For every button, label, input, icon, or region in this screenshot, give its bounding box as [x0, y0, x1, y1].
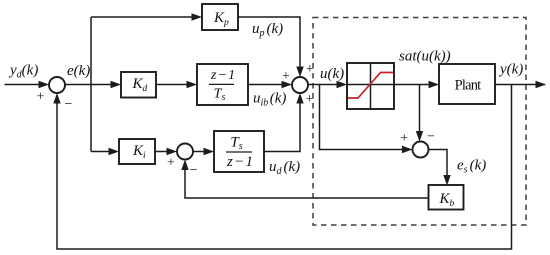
wire e(k) to Kd: [65, 84, 111, 86]
block Plant: [439, 64, 495, 104]
arrow into sum3 bottom: [181, 160, 188, 171]
svg-text:e(k): e(k): [67, 63, 90, 79]
blocks: [49, 4, 495, 210]
summing junction S2: [292, 77, 308, 93]
arrowheads: [39, 13, 547, 185]
summing junction S3: [177, 144, 193, 160]
wire sat to plant: [394, 84, 430, 86]
arrow into zblock: [187, 81, 198, 88]
svg-text:y(k): y(k): [498, 62, 523, 78]
svg-text:uib(k): uib(k): [253, 91, 286, 109]
wire branch vertical: [90, 17, 92, 152]
fraction bar tblock: [226, 151, 252, 153]
wire sum4 to Kh: [429, 150, 448, 176]
arrow into sum2 bottom: [296, 93, 303, 104]
block (z-1)/Ts: [197, 64, 248, 105]
wire sat out tap to sum4: [419, 85, 421, 133]
svg-text:+: +: [306, 62, 314, 77]
arrow into sum3 left: [167, 148, 178, 155]
svg-text:+: +: [306, 92, 314, 107]
arrow into sum1: [39, 81, 50, 88]
arrow into sum2 left: [282, 81, 293, 88]
block Kd: [121, 72, 156, 98]
saturation block: [347, 63, 394, 109]
arrow into Kh: [443, 175, 450, 186]
wire zblock to sum2: [248, 84, 282, 86]
svg-text:−: −: [427, 129, 435, 144]
svg-text:sat(u(k)): sat(u(k)): [399, 49, 451, 65]
arrow output: [536, 81, 547, 88]
svg-text:u(k): u(k): [320, 66, 344, 82]
wire outer feedback: [57, 85, 512, 250]
svg-text:+: +: [400, 131, 408, 146]
arrow into Ki: [109, 148, 120, 155]
summing junction S1: [49, 77, 65, 93]
wire Kd to zblock: [156, 84, 187, 86]
block Kh: [429, 185, 464, 210]
arrow into plant: [429, 81, 440, 88]
block Kp: [202, 4, 238, 30]
block Ki: [119, 139, 155, 164]
arrow into sat: [337, 81, 348, 88]
svg-text:−: −: [65, 97, 73, 112]
arrow into tblock: [204, 148, 215, 155]
wire plant to output: [495, 84, 545, 86]
sat horizontal axis: [347, 84, 394, 86]
wire Ki to sum3: [155, 151, 167, 153]
svg-text:ud(k): ud(k): [269, 159, 300, 177]
svg-text:yd(k): yd(k): [8, 63, 38, 81]
wire sum2 to sat: [308, 84, 337, 86]
svg-text:es(k): es(k): [457, 158, 486, 176]
svg-text:z − 1: z − 1: [226, 154, 253, 170]
svg-text:+: +: [167, 155, 175, 170]
wire branch to Kp: [91, 16, 192, 18]
wire sum3 to tblock: [193, 151, 204, 153]
arrow into Kp: [192, 13, 203, 20]
svg-text:up(k): up(k): [252, 21, 283, 39]
svg-text:+: +: [37, 90, 45, 105]
saturation internals: [347, 63, 394, 109]
wire input yd: [5, 84, 40, 86]
fraction bar zblock: [209, 83, 234, 85]
summing junction S4: [413, 142, 429, 158]
arrow into Kd: [111, 81, 122, 88]
arrow into sum2 top: [296, 67, 303, 78]
arrow into sum1 bottom: [53, 93, 60, 104]
arrow into sum4 top: [416, 131, 423, 142]
wire Kp to sum2: [238, 17, 300, 67]
sat red curve: [348, 73, 393, 99]
arrow into sum4 left: [402, 146, 413, 153]
wire Kh to sum3: [185, 167, 429, 198]
wire branch to Ki: [91, 151, 109, 153]
svg-text:Plant: Plant: [455, 78, 482, 94]
svg-text:+: +: [282, 69, 290, 84]
dashed box: [313, 18, 526, 226]
wire u tap to sum4: [320, 85, 403, 150]
block Ts/(z-1): [214, 131, 264, 172]
svg-text:z − 1: z − 1: [210, 68, 235, 83]
sat vertical axis: [370, 63, 372, 109]
svg-text:−: −: [190, 163, 198, 178]
wire tblock to sum2: [264, 100, 300, 152]
